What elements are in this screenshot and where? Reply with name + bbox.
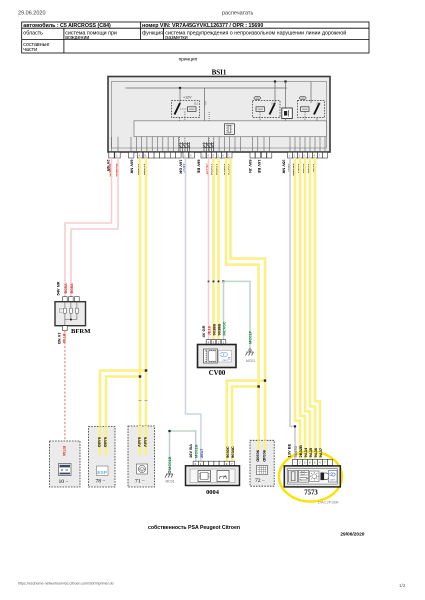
svg-text:60V NR: 60V NR bbox=[130, 160, 135, 174]
svg-text:72: 72 bbox=[255, 478, 261, 484]
svg-text:BT38: BT38 bbox=[62, 446, 67, 457]
relay K3 coil bbox=[301, 107, 310, 112]
svg-text:область: область bbox=[23, 30, 43, 36]
wire 9038B b to CV00 bbox=[217, 158, 220, 340]
relay K2 dashed box bbox=[253, 101, 281, 118]
block 78 dashed box bbox=[89, 427, 116, 488]
svg-text:9A8V: 9A8V bbox=[143, 437, 148, 447]
svg-text:CV00: CV00 bbox=[209, 370, 226, 377]
svg-text:9034C: 9034C bbox=[230, 446, 235, 458]
wire frame drop relay3 bbox=[310, 82, 312, 104]
BFRM top pin 2 bbox=[69, 297, 74, 302]
CV00 pin 2 bbox=[221, 340, 226, 345]
node green tee bbox=[222, 280, 224, 282]
wire JE18 pink from BSI to CV00 bbox=[208, 158, 210, 340]
svg-text:29.06.2020: 29.06.2020 bbox=[18, 11, 46, 17]
svg-text:MCV0C: MCV0C bbox=[222, 321, 227, 335]
wire B08BA from BSI to BFRM pin1 bbox=[65, 158, 112, 297]
BFRM box bbox=[55, 302, 86, 326]
block 71 dashed box bbox=[128, 426, 155, 487]
svg-text:9034D: 9034D bbox=[262, 450, 267, 462]
svg-text:MC01P: MC01P bbox=[248, 330, 253, 344]
wire MC01B green: 0004 pin1 to ground bbox=[170, 431, 196, 472]
svg-text:распечатать: распечатать bbox=[222, 11, 253, 17]
svg-text:16V GR: 16V GR bbox=[178, 160, 183, 174]
svg-text:MC01: MC01 bbox=[246, 359, 255, 363]
CV00 pin 4 bbox=[206, 340, 211, 345]
wire 2B32B yellow staircase bbox=[295, 158, 300, 459]
svg-text:разметки: разметки bbox=[165, 35, 187, 41]
wire 9030C yellow jog right bbox=[226, 158, 259, 440]
bar chip icon bbox=[224, 124, 234, 135]
svg-text:9A37: 9A37 bbox=[318, 447, 323, 457]
svg-text:0004: 0004 bbox=[206, 489, 220, 496]
wire 9A35 yellow staircase bbox=[305, 158, 310, 459]
relay K1 coil link bbox=[180, 108, 188, 110]
CV00 pin 3 bbox=[211, 340, 216, 345]
7573 connector icon bbox=[289, 470, 298, 482]
bar-to-pin stubs bbox=[112, 137, 326, 153]
internal connector bar bbox=[134, 121, 327, 137]
svg-text:BSI1: BSI1 bbox=[212, 69, 227, 77]
7573 box bbox=[284, 466, 340, 487]
CV00 box bbox=[198, 345, 237, 368]
svg-text:1V ND: 1V ND bbox=[57, 333, 62, 345]
fuse F4 tick bbox=[288, 110, 290, 117]
wire BFRM internal down bbox=[64, 320, 66, 326]
svg-text:функция: функция bbox=[142, 30, 163, 36]
svg-text:9A8V: 9A8V bbox=[137, 437, 142, 447]
wire branch yellow to 0004 pin7 bbox=[227, 381, 265, 461]
svg-text:номер VIN: VR7A45GYVKL126377 /: номер VIN: VR7A45GYVKL126377 / OPR : 156… bbox=[142, 23, 263, 29]
CV00 pin numbers bbox=[208, 341, 225, 345]
svg-text:60V JN: 60V JN bbox=[248, 160, 253, 173]
wire stubs into 72 bbox=[257, 440, 260, 450]
bar chip marks bbox=[226, 125, 233, 133]
0004 inner panel bbox=[190, 469, 235, 483]
wire 9A36 yellow staircase bbox=[310, 158, 315, 459]
svg-text:66V BE: 66V BE bbox=[197, 160, 202, 174]
wire K1 to comb dashed bbox=[179, 118, 181, 143]
wire bus drop left bbox=[179, 88, 181, 103]
relay K2 switch contact bbox=[270, 103, 276, 115]
svg-text:2E17: 2E17 bbox=[199, 448, 204, 458]
svg-text:4V GR: 4V GR bbox=[201, 325, 206, 337]
relay K3 supply symbol bbox=[299, 96, 306, 99]
BSI pin row group 60V NR bbox=[129, 152, 182, 158]
7573 pin row bbox=[293, 459, 333, 465]
wire MC01P green to ground bbox=[224, 281, 251, 352]
BSI1 inner frame bbox=[112, 82, 327, 149]
svg-text:https://escheme-networkservice: https://escheme-networkservice.citroen.c… bbox=[18, 582, 114, 586]
relay K1 switch contact bbox=[175, 103, 181, 115]
svg-text:16V BA: 16V BA bbox=[188, 444, 193, 458]
wire frame drop fuse bbox=[285, 82, 287, 109]
node branch b bbox=[139, 375, 141, 377]
svg-text:35V NR: 35V NR bbox=[281, 160, 286, 174]
relay K2 coil bbox=[256, 107, 265, 112]
splice marks on yellow pair bbox=[139, 400, 142, 402]
svg-text:BFRM: BFRM bbox=[71, 328, 91, 335]
block 71 icon gong bbox=[137, 464, 148, 474]
wire MCV0C green down to CV00 bbox=[223, 281, 225, 339]
wire labels below BSI1 bbox=[106, 160, 317, 177]
splice dot on 9038B a bbox=[213, 281, 215, 283]
relay K1 dashed box bbox=[172, 101, 200, 118]
svg-text:29/06/2020: 29/06/2020 bbox=[340, 531, 364, 537]
BSI pin row group 2V NR bbox=[109, 152, 120, 158]
svg-text:78: 78 bbox=[96, 479, 102, 485]
svg-text:автомобиль : C5 AIRCROSS (C84): автомобиль : C5 AIRCROSS (C84) bbox=[23, 22, 111, 29]
7573 camera icon bbox=[329, 471, 338, 483]
svg-text:K: K bbox=[223, 154, 225, 158]
ground MC01 right bbox=[246, 352, 254, 356]
wire BT38 dashed down to block 10 bbox=[64, 331, 66, 441]
svg-text:B08A: B08A bbox=[69, 283, 74, 293]
node on 9034C wire bbox=[264, 379, 266, 381]
BFRM internal junction bbox=[70, 319, 72, 321]
svg-text:16V BE: 16V BE bbox=[257, 160, 262, 174]
block 10 dashed box bbox=[50, 441, 81, 487]
block 10 battery icon bbox=[59, 464, 72, 476]
CV00 pin 1 bbox=[216, 340, 221, 345]
svg-text:принцип: принцип bbox=[179, 57, 198, 62]
svg-text:cam: cam bbox=[223, 359, 228, 362]
svg-text:13V BE: 13V BE bbox=[287, 443, 292, 457]
svg-text:A: A bbox=[139, 154, 141, 158]
svg-text:MC01B: MC01B bbox=[194, 444, 199, 458]
ground symbol circle bbox=[249, 349, 251, 351]
BFRM internal fuses bbox=[60, 302, 79, 320]
node frame-mid2 bbox=[284, 80, 286, 82]
comb connector 1 bbox=[179, 142, 191, 152]
node gray jog bbox=[294, 425, 296, 427]
svg-text:вождении: вождении bbox=[65, 35, 89, 41]
wire 2B17 lavender from BSI to 0004 pin2 bbox=[186, 158, 201, 461]
svg-text:B08A: B08A bbox=[63, 283, 68, 293]
wire K3 contact down bbox=[316, 118, 318, 121]
svg-text:71: 71 bbox=[135, 479, 141, 485]
0004 pin row bbox=[193, 461, 234, 466]
relay K3 switch contact bbox=[314, 103, 320, 115]
svg-text:R2: R2 bbox=[194, 102, 198, 106]
0004 pin numbers bbox=[195, 462, 233, 466]
7573 inner panel bbox=[287, 469, 337, 485]
BSI pin row group 16V GR bbox=[183, 152, 194, 158]
fuse F4 element bbox=[284, 111, 287, 116]
wire stubs into 78 bbox=[99, 427, 102, 456]
node green corner bbox=[168, 430, 170, 432]
svg-text:система предупреждения о непро: система предупреждения о непроизвольном … bbox=[165, 29, 346, 36]
CV00 camera icon bbox=[219, 351, 232, 363]
svg-text:7573: 7573 bbox=[304, 490, 318, 497]
svg-text:cam: cam bbox=[330, 478, 336, 482]
svg-text:C: C bbox=[228, 154, 230, 158]
0004 gauge icon bbox=[217, 471, 229, 482]
pin numbers bbox=[110, 154, 321, 158]
CV00 chip icon bbox=[204, 349, 218, 363]
svg-text:собственность PSA Peugeot Citr: собственность PSA Peugeot Citroen bbox=[148, 524, 240, 531]
BSI pin row group 66V BE bbox=[201, 152, 232, 158]
0004 box bbox=[186, 466, 240, 486]
BFRM top pin 3 bbox=[75, 297, 80, 302]
wire bar to comb dotted bbox=[208, 112, 210, 142]
wire B08BA from BSI to BFRM pin2 bbox=[71, 158, 118, 297]
block 72 icon keypad bbox=[257, 466, 268, 475]
7573 lamp icon bbox=[310, 471, 320, 482]
wire frame drop relay2 bbox=[274, 82, 276, 104]
wire 9A38J b vertical bbox=[145, 158, 148, 427]
wire branch yellow to 0004 pin8 bbox=[232, 387, 259, 462]
node bus-left bbox=[179, 87, 181, 89]
7573 module icon bbox=[299, 470, 309, 482]
svg-text:части: части bbox=[23, 47, 37, 53]
BFRM bottom pin bbox=[63, 326, 68, 331]
wire K3 down bbox=[304, 111, 306, 120]
wire 9034C yellow jog right bbox=[231, 158, 266, 440]
svg-text:MC01: MC01 bbox=[166, 480, 175, 484]
svg-text:R3: R3 bbox=[272, 102, 276, 106]
0004 chip icon bbox=[198, 471, 211, 482]
svg-text:+12V: +12V bbox=[183, 96, 192, 100]
svg-text:9A8D: 9A8D bbox=[97, 437, 102, 447]
svg-text:1/2: 1/2 bbox=[399, 583, 406, 588]
svg-text:9A8D: 9A8D bbox=[103, 437, 108, 447]
svg-text:10: 10 bbox=[59, 479, 65, 485]
wire 9A38J a vertical bbox=[139, 158, 142, 427]
ground MC01 left bbox=[165, 474, 173, 478]
svg-text:9030D: 9030D bbox=[256, 450, 261, 462]
block 78 icon bbox=[97, 466, 109, 476]
splice dot on JE18 bbox=[208, 281, 210, 283]
wire K1 coil to comb dashed bbox=[184, 111, 186, 142]
BSI pin row group 16V BE bbox=[262, 152, 272, 158]
relay K3 dashed box bbox=[298, 101, 325, 118]
wire 9A34 yellow staircase bbox=[300, 158, 305, 459]
wire F4 to bar bbox=[285, 119, 287, 121]
wire 9A37 yellow staircase bbox=[315, 158, 320, 459]
svg-text:R1: R1 bbox=[317, 102, 321, 106]
wire bus to bar bbox=[203, 88, 205, 121]
BSI pin row group 35V NR bbox=[288, 152, 328, 158]
svg-text:B: B bbox=[145, 154, 147, 158]
block 72 dashed box bbox=[250, 440, 274, 486]
svg-text:DAC2P36R: DAC2P36R bbox=[318, 500, 339, 505]
svg-text:MC01B: MC01B bbox=[167, 456, 172, 470]
wire 3647 gray from BSI to 7573 pin1 bbox=[290, 158, 295, 459]
wire 9038B a to CV00 bbox=[212, 158, 215, 340]
splice dot on 9038B b bbox=[218, 281, 220, 283]
relay K2 supply symbol bbox=[254, 96, 261, 99]
svg-text:54V NR: 54V NR bbox=[56, 281, 61, 295]
7573 gate icon bbox=[321, 473, 329, 480]
wire branch to 78 upper bbox=[100, 371, 146, 427]
svg-text:ESP: ESP bbox=[97, 470, 107, 476]
7573 pin numbers bbox=[294, 461, 326, 465]
wire branch to 78 lower bbox=[106, 377, 140, 427]
internal bus wire bbox=[126, 87, 288, 89]
fuse F4 box bbox=[282, 108, 293, 119]
relay K1 coil bbox=[188, 107, 197, 112]
node on 9030C wire bbox=[257, 385, 259, 387]
header table bbox=[22, 22, 369, 53]
wire K2 down bbox=[259, 111, 261, 120]
BSI1 ECU box bbox=[108, 77, 330, 153]
comb connector 2 bbox=[203, 142, 215, 152]
BSI pin row group 60V JN bbox=[250, 152, 260, 158]
highlight ellipse bbox=[279, 452, 342, 502]
BFRM top pin 1 bbox=[63, 297, 68, 302]
node branch a bbox=[145, 369, 147, 371]
wire stubs into 71 bbox=[139, 426, 142, 455]
node frame-mid1 bbox=[274, 80, 276, 82]
